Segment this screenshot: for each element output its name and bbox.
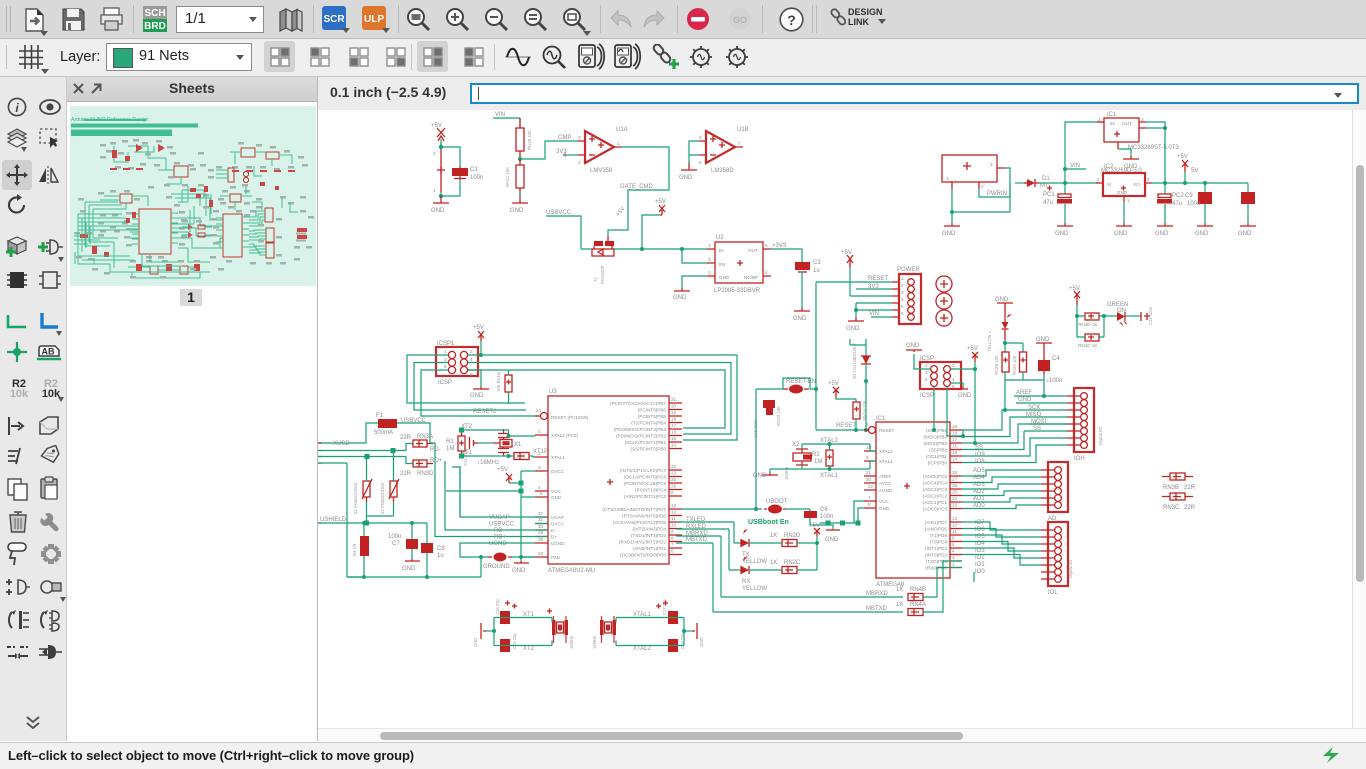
svg-text:?: ? — [787, 12, 796, 28]
left tool column — [0, 77, 67, 741]
help icon — [779, 7, 804, 32]
svg-text:UBOOT: UBOOT — [766, 499, 788, 505]
svg-text:2: 2 — [470, 349, 473, 354]
svg-text:X2: X2 — [792, 442, 800, 448]
svg-text:(AIN2/PCINT11)PC2: (AIN2/PCINT11)PC2 — [624, 494, 666, 499]
status bar — [0, 742, 1366, 769]
svg-text:RN4C 1K: RN4C 1K — [1078, 343, 1098, 348]
svg-text:GND: GND — [1055, 231, 1069, 237]
node USBVCC label — [546, 210, 581, 249]
svg-text:10K RN1B: 10K RN1B — [496, 372, 501, 392]
svg-text:C17 22p: C17 22p — [662, 598, 667, 615]
gear icon 2 — [723, 43, 752, 71]
crystal Y1 wires — [494, 618, 552, 646]
resistor 22R RN3D — [400, 458, 443, 477]
svg-text:GND: GND — [753, 473, 767, 479]
svg-text:2: 2 — [433, 151, 436, 156]
svg-text:19: 19 — [671, 410, 677, 415]
svg-text:(MISO)PB4: (MISO)PB4 — [924, 435, 948, 440]
top toolbar row 1 — [0, 0, 1366, 39]
junction reset diode — [861, 380, 863, 382]
svg-text:VI: VI — [1107, 182, 1111, 187]
svg-text:9: 9 — [671, 529, 674, 534]
svg-text:(MOSI)PB3: (MOSI)PB3 — [924, 441, 948, 446]
svg-text:(SCLK/PCINT1)PB1: (SCLK/PCINT1)PB1 — [625, 440, 667, 445]
rotate tool — [6, 194, 28, 216]
svg-text:26: 26 — [952, 483, 958, 488]
ground IC2 — [1114, 202, 1132, 237]
capacitor C9 100n — [1185, 183, 1212, 223]
POWER header — [892, 267, 921, 324]
svg-text:SCH: SCH — [144, 8, 165, 19]
svg-text:100n: 100n — [388, 534, 401, 540]
svg-text:(OC1)PB1: (OC1)PB1 — [926, 454, 948, 459]
svg-text:21: 21 — [671, 397, 677, 402]
svg-text:CMP: CMP — [558, 135, 571, 141]
ground C9 — [1195, 223, 1213, 237]
svg-text:(AIN0)PD6: (AIN0)PD6 — [925, 527, 948, 532]
svg-text:MBRXD: MBRXD — [866, 591, 888, 597]
svg-text:RESET: RESET — [868, 276, 888, 282]
svg-text:15: 15 — [671, 436, 677, 441]
svg-text:3: 3 — [444, 357, 447, 362]
svg-text:AD5: AD5 — [973, 468, 985, 474]
svg-text:RX: RX — [742, 579, 750, 585]
svg-text:RN1D 10K: RN1D 10K — [776, 406, 781, 426]
ground U1B — [679, 163, 697, 181]
svg-text:30: 30 — [538, 524, 544, 529]
svg-text:GND: GND — [1114, 231, 1128, 237]
svg-text:(ADC1)PC1: (ADC1)PC1 — [923, 500, 948, 505]
svg-text:GND: GND — [995, 297, 1009, 303]
resistor RN1A 10K pullup — [853, 400, 867, 430]
svg-text:IO3: IO3 — [975, 548, 985, 554]
svg-text:(TXD1/INT3)PD3: (TXD1/INT3)PD3 — [631, 533, 666, 538]
svg-text:17: 17 — [952, 437, 958, 442]
capacitor C4 100n — [1038, 356, 1062, 396]
svg-text:OUT: OUT — [1122, 121, 1132, 126]
svg-text:AREF: AREF — [1016, 390, 1032, 396]
svg-text:(PDO/MISO/PCINT3)PB3: (PDO/MISO/PCINT3)PB3 — [614, 427, 667, 432]
add link icon — [652, 44, 680, 70]
svg-text:XTAL1: XTAL1 — [820, 473, 839, 479]
svg-text:GND: GND — [699, 638, 704, 647]
pinswap tool — [6, 415, 28, 437]
ground IC1 top — [1118, 149, 1139, 170]
capacitor C10 far right — [1241, 183, 1255, 223]
svg-text:4: 4 — [470, 357, 473, 362]
ground PC1 — [1055, 223, 1073, 237]
ground PC2 — [1155, 223, 1173, 237]
svg-text:+5V: +5V — [615, 206, 626, 218]
svg-text:2: 2 — [901, 283, 904, 288]
wire C1 loop — [441, 142, 460, 196]
+5V tx rx — [809, 523, 820, 543]
svg-text:T1: T1 — [593, 276, 598, 282]
svg-text:OUT: OUT — [748, 248, 758, 253]
svg-text:(T1/PCINT4)PB4: (T1/PCINT4)PB4 — [631, 421, 666, 426]
svg-text:29: 29 — [538, 530, 544, 535]
redo icon (disabled) — [641, 9, 667, 31]
node AD labels — [973, 468, 985, 509]
mount hole circles — [936, 276, 952, 326]
wire IC1 out to 5V rail — [1146, 122, 1248, 183]
IC1 right pins PB — [924, 424, 962, 466]
wire sck row — [1005, 409, 1067, 411]
bus tool (blue) — [38, 311, 60, 331]
svg-text:12: 12 — [952, 523, 958, 528]
svg-text:GND: GND — [473, 638, 478, 647]
solder jumper UBOOT — [682, 499, 798, 514]
svg-text:24: 24 — [952, 496, 958, 501]
header AD — [1041, 462, 1068, 522]
staircase PC to AD — [962, 470, 1041, 509]
svg-text:Z1 PGB1010603: Z1 PGB1010603 — [353, 482, 358, 514]
junction IC1 out — [1163, 126, 1167, 130]
row2 grab handle — [6, 45, 7, 69]
SCH/BRD icon — [143, 6, 167, 33]
wire usbvcc rail through T1 to U2 — [581, 248, 707, 250]
svg-text:33: 33 — [538, 551, 544, 556]
svg-text:+5V: +5V — [655, 199, 666, 205]
svg-text:RN2C: RN2C — [784, 560, 801, 566]
svg-text:C4: C4 — [1052, 356, 1060, 362]
svg-text:YELLOW: YELLOW — [742, 559, 767, 565]
svg-text:AB: AB — [42, 347, 55, 357]
svg-text:23: 23 — [952, 503, 958, 508]
svg-text:(ADC3)PC3: (ADC3)PC3 — [923, 487, 948, 492]
svg-text:FDN340P: FDN340P — [600, 265, 605, 284]
shorten tool — [6, 642, 30, 662]
capacitor PC1 47u — [1043, 183, 1072, 223]
varistor Z1 — [353, 457, 372, 517]
svg-text:(RTS/AIN5/INT6)PD6: (RTS/AIN5/INT6)PD6 — [622, 514, 666, 519]
svg-text:D-: D- — [551, 528, 556, 533]
svg-text:GND: GND — [906, 343, 920, 349]
svg-text:1u: 1u — [813, 268, 820, 274]
svg-text:GND: GND — [825, 537, 839, 543]
svg-text:27: 27 — [952, 477, 958, 482]
svg-text:7: 7 — [738, 141, 741, 146]
ground under GROUND pad — [512, 557, 529, 574]
wire 5V pin — [850, 295, 892, 297]
svg-text:UGND: UGND — [551, 541, 565, 546]
drc tool — [38, 575, 64, 599]
svg-text:3: 3 — [990, 162, 993, 167]
svg-text:XTAL1: XTAL1 — [551, 455, 565, 460]
junction 5V rail — [1163, 181, 1167, 185]
ground C3 — [793, 308, 810, 322]
svg-text:20: 20 — [866, 477, 872, 482]
svg-text:12: 12 — [671, 510, 677, 515]
svg-text:C6: C6 — [820, 507, 828, 513]
svg-text:RN1B 10K: RN1B 10K — [527, 130, 532, 150]
svg-text:VCC: VCC — [551, 489, 561, 494]
svg-text:1: 1 — [433, 188, 436, 193]
horizontal scrollbar — [318, 728, 1366, 743]
svg-text:GND: GND — [510, 208, 524, 214]
+5V above IC1 — [967, 346, 978, 443]
net tool (green) — [6, 311, 28, 331]
svg-text:EN: EN — [719, 262, 725, 267]
svg-text:(SCK)PB5: (SCK)PB5 — [926, 428, 948, 433]
svg-text:IC1: IC1 — [876, 416, 886, 422]
resistor R1 1M — [446, 430, 465, 456]
wire EN to U2 — [682, 249, 707, 263]
layer label — [60, 49, 100, 65]
svg-text:RN2A 10K: RN2A 10K — [1012, 355, 1017, 375]
ground ICSP1 — [468, 370, 489, 399]
junction xt1 — [507, 454, 511, 458]
wire L rail — [1005, 343, 1023, 352]
ground POWER — [846, 310, 864, 332]
svg-text:IO1: IO1 — [975, 562, 985, 568]
svg-text:TXLED: TXLED — [686, 517, 706, 523]
gateswap tool — [6, 608, 30, 632]
svg-text:ATMEGA8U2-MU: ATMEGA8U2-MU — [548, 568, 595, 574]
optimize tool — [40, 543, 62, 565]
svg-text:+5V: +5V — [841, 250, 852, 256]
svg-text:IN: IN — [1110, 121, 1115, 126]
svg-text:10: 10 — [866, 445, 872, 450]
svg-text:U1B: U1B — [737, 127, 749, 133]
svg-text:C3: C3 — [813, 260, 821, 266]
node 3V3 out label — [771, 243, 802, 262]
svg-text:MC33269ST-5.0T3: MC33269ST-5.0T3 — [1128, 145, 1179, 151]
svg-text:BRD: BRD — [144, 21, 166, 32]
svg-text:R2: R2 — [812, 452, 820, 458]
grid icon — [17, 43, 45, 71]
svg-text:19: 19 — [952, 424, 958, 429]
svg-text:U3: U3 — [549, 389, 557, 395]
resistor RN1B 10K pulldown — [496, 370, 512, 404]
crystal Y1 caps left — [495, 598, 517, 652]
+5V symbol power — [841, 250, 853, 296]
ground C6 — [825, 530, 840, 543]
wire dtr net down — [755, 389, 757, 509]
IC1 MC33269ST regulator top — [1097, 112, 1146, 149]
resistor divider bottom — [505, 159, 524, 196]
svg-text:+5V: +5V — [497, 467, 508, 473]
junction green a — [1075, 314, 1079, 318]
svg-text:20: 20 — [671, 404, 677, 409]
svg-text:USBVCC: USBVCC — [489, 522, 515, 528]
svg-text:3: 3 — [578, 135, 581, 140]
LED green ON — [1104, 302, 1141, 326]
undo icon (disabled) — [608, 9, 634, 31]
svg-text:(ICP)PB0: (ICP)PB0 — [928, 461, 948, 466]
layer dropdown — [106, 43, 252, 71]
svg-text:4: 4 — [538, 485, 541, 490]
svg-text:18: 18 — [952, 431, 958, 436]
svg-text:6: 6 — [699, 160, 702, 165]
svg-text:XT2: XT2 — [461, 424, 473, 430]
svg-text:USBVCC: USBVCC — [546, 210, 572, 216]
svg-text:RD+: RD+ — [494, 535, 507, 541]
svg-text:22: 22 — [671, 464, 677, 469]
wire ss row — [1031, 430, 1067, 432]
svg-text:+5V: +5V — [809, 523, 820, 529]
svg-text:16: 16 — [952, 444, 958, 449]
junction ushield caps — [410, 521, 414, 525]
wire under resistors — [1005, 372, 1044, 410]
svg-text:47u: 47u — [1043, 200, 1053, 206]
svg-text:XTAL2: XTAL2 — [633, 646, 652, 652]
svg-text:IOL: IOL — [1048, 590, 1058, 596]
svg-text:RESET-EN: RESET-EN — [786, 379, 816, 385]
svg-text:SCR: SCR — [323, 14, 345, 25]
svg-text:1K: 1K — [896, 602, 903, 608]
svg-text:(RXD1/AIN1/INT2)PD2: (RXD1/AIN1/INT2)PD2 — [619, 540, 666, 545]
svg-text:13: 13 — [671, 503, 677, 508]
svg-text:3: 3 — [901, 290, 904, 295]
collapse chevrons — [24, 715, 42, 731]
svg-text:Z2 PGB1010603: Z2 PGB1010603 — [380, 482, 385, 514]
IC1 ATMEGA328 — [876, 422, 950, 578]
svg-text:ICSP: ICSP — [920, 356, 934, 362]
node CMP wire to opamp — [520, 135, 578, 159]
svg-text:F1: F1 — [376, 413, 384, 419]
svg-text:3: 3 — [1141, 117, 1144, 122]
zoom 1:1 icon — [523, 7, 549, 33]
svg-text:2: 2 — [578, 160, 581, 165]
SCR icon — [322, 6, 346, 30]
svg-text:XT1: XT1 — [461, 450, 473, 456]
zoom in icon — [445, 7, 471, 33]
junction ushield — [347, 557, 481, 577]
LED RX yellow — [676, 529, 782, 592]
resistor RN3C 22R — [1162, 493, 1196, 511]
zoom select icon — [562, 7, 588, 33]
+5V symbol green led — [1069, 286, 1080, 316]
svg-text:XTAL2: XTAL2 — [879, 449, 893, 454]
junction VIN node — [1063, 181, 1067, 185]
wire avcc vcc — [820, 501, 864, 523]
svg-text:UCAP: UCAP — [551, 515, 564, 520]
svg-text:1: 1 — [866, 422, 869, 427]
ULP icon — [362, 6, 386, 30]
svg-text:(AIN1)PD7: (AIN1)PD7 — [925, 520, 948, 525]
wire to +5V arrow — [642, 215, 660, 249]
svg-text:R3 1M: R3 1M — [352, 543, 357, 556]
svg-text:10: 10 — [671, 523, 677, 528]
svg-text:2: 2 — [1097, 177, 1100, 182]
diode D2 reset — [850, 339, 871, 381]
svg-text:1: 1 — [901, 276, 904, 281]
svg-text:4: 4 — [952, 549, 955, 554]
staircase PB to IOH — [962, 410, 1067, 463]
gate arrow tool — [38, 642, 62, 662]
svg-text:C7: C7 — [392, 541, 400, 547]
svg-text:RN1C 10K: RN1C 10K — [505, 167, 510, 187]
copy tool — [6, 477, 30, 501]
multimeter icon 2 — [613, 43, 643, 71]
svg-text:18: 18 — [671, 417, 677, 422]
+5V at ICSP1 — [468, 325, 484, 357]
add part tool — [4, 235, 30, 259]
svg-text:USHIELD: USHIELD — [320, 517, 347, 523]
sheets panel — [67, 77, 318, 741]
svg-text:1: 1 — [925, 363, 928, 368]
svg-text:RN3D: RN3D — [417, 471, 434, 477]
svg-text:+5V: +5V — [1069, 286, 1080, 292]
status lightning icon — [1320, 745, 1342, 765]
label tool — [36, 343, 62, 363]
svg-text:1: 1 — [946, 176, 949, 181]
svg-text:5V: 5V — [1191, 168, 1198, 174]
svg-text:14: 14 — [671, 443, 677, 448]
svg-text:1: 1 — [617, 141, 620, 146]
svg-text:GND: GND — [719, 275, 730, 280]
wire varistor rail — [367, 516, 394, 523]
ground X1 — [942, 223, 960, 237]
IC U3 ATMEGA8U2 — [548, 396, 669, 564]
node VIN label — [493, 112, 520, 118]
svg-text:3: 3 — [1147, 177, 1150, 182]
svg-text:C15 22p: C15 22p — [495, 598, 500, 615]
capacitor PC2 47u — [1157, 183, 1184, 223]
pin wires C1 — [441, 147, 460, 192]
print icon — [99, 7, 124, 32]
header IOH — [1067, 388, 1103, 462]
svg-text:3: 3 — [708, 257, 711, 262]
svg-text:ULP: ULP — [364, 14, 384, 25]
svg-text:(PCINT5)PB5: (PCINT5)PB5 — [638, 414, 667, 419]
capacitor C3 1u — [795, 260, 821, 308]
wire icsp bus left — [407, 355, 538, 416]
svg-text:1M: 1M — [814, 459, 822, 465]
svg-text:13: 13 — [952, 516, 958, 521]
svg-text:22R: 22R — [1184, 505, 1196, 511]
svg-text:(SS/PCINT0)PB0: (SS/PCINT0)PB0 — [631, 447, 667, 452]
svg-text:X1: X1 — [514, 442, 522, 448]
svg-text:(ADC0)PC0: (ADC0)PC0 — [923, 507, 948, 512]
wire vcc rail long — [446, 471, 535, 557]
svg-text:RXLED: RXLED — [686, 524, 707, 530]
gear icon 1 — [687, 43, 716, 71]
junction tool — [6, 341, 28, 363]
svg-text:GND: GND — [793, 316, 807, 322]
svg-text:(T1)PD5: (T1)PD5 — [930, 533, 948, 538]
IC1 reset pin — [864, 422, 895, 434]
wire mbrxd long — [676, 536, 903, 597]
new document icon — [22, 7, 48, 33]
resistor RN2C 1K — [770, 543, 817, 574]
ground shield — [402, 559, 420, 572]
svg-text:4: 4 — [765, 270, 768, 275]
U3 right pins group1 — [610, 397, 682, 452]
svg-text:8: 8 — [868, 502, 871, 507]
svg-text:RESET2: RESET2 — [473, 409, 497, 415]
svg-text:16: 16 — [671, 430, 677, 435]
go icon (disabled) — [728, 7, 752, 31]
svg-text:22R: 22R — [400, 435, 412, 441]
fuse F1 — [374, 413, 427, 436]
svg-text:XTAL2 (PC0): XTAL2 (PC0) — [551, 433, 578, 438]
crystal Y2 caps — [656, 598, 685, 652]
node VIN pin — [869, 311, 892, 317]
svg-text:GND: GND — [1124, 164, 1138, 170]
LED L yellow pin13 — [987, 307, 1012, 352]
footprint tool — [39, 268, 61, 292]
svg-text:500mA: 500mA — [374, 430, 393, 436]
svg-text:16MHz: 16MHz — [592, 636, 597, 649]
row1 grab handle — [6, 6, 7, 32]
wire reset net vertical from power — [816, 282, 866, 430]
resistor RN2D 1K — [770, 533, 817, 547]
svg-text:(XCK/AIN4/PCINT12)PD5: (XCK/AIN4/PCINT12)PD5 — [613, 520, 667, 525]
svg-text:2: 2 — [1098, 117, 1101, 122]
